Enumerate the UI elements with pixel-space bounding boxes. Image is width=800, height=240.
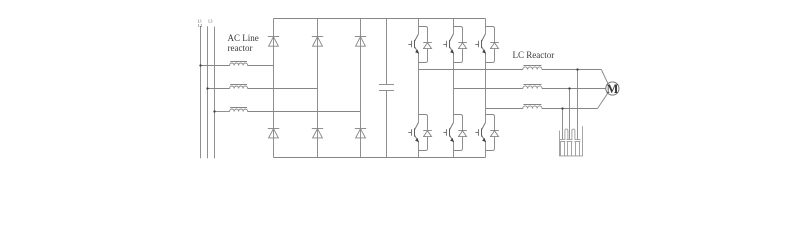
diode D6 (rectifier bottom, leg 3)	[355, 128, 366, 130]
inductor: AC line reactor coil 3	[230, 109, 248, 111]
node: junction dot filter tap 2	[568, 87, 570, 89]
diode D12 (freewheel, bottom leg 3)	[486, 115, 495, 131]
node: junction dot filter tap 3	[561, 107, 563, 109]
transistor Q2 (inverter top IGBT, leg 2)	[450, 34, 454, 42]
diode D7 (freewheel, top leg 1)	[419, 27, 428, 43]
label L1	[198, 20, 202, 24]
svg-text:LC Reactor: LC Reactor	[513, 50, 555, 60]
transistor Q6 (inverter bottom IGBT, leg 3)	[482, 122, 486, 129]
node: junction dot filter tap 1	[576, 68, 578, 70]
node: junction dot phase 1 tap	[199, 64, 201, 66]
diode D4 (rectifier bottom, leg 1)	[268, 128, 279, 130]
capacitor C3 (output filter)	[567, 139, 573, 141]
inductor: LC reactor coil 2	[523, 86, 542, 89]
svg-text:M: M	[606, 82, 618, 96]
wire: output phase V from inverter leg 2 to motor	[454, 88, 523, 90]
wire: phase 3 input from supply line to rectifier leg	[215, 111, 230, 113]
diode D2 (rectifier top, leg 2)	[312, 36, 323, 38]
diode D11 (freewheel, bottom leg 2)	[454, 115, 463, 131]
inductor: LC reactor coil 3	[523, 106, 542, 109]
node: junction dot phase 3 tap	[213, 110, 215, 112]
svg-text:L2: L2	[198, 24, 202, 28]
inductor: AC line reactor coil 2	[230, 86, 248, 89]
label L3	[208, 19, 212, 23]
label: AC Line reactor	[228, 33, 259, 43]
inductor: AC line reactor coil 1	[230, 63, 248, 66]
transistor Q5 (inverter bottom IGBT, leg 2)	[450, 122, 454, 129]
wire: inverter leg 3 main conductor	[485, 19, 487, 34]
svg-text:AC Line: AC Line	[228, 33, 259, 43]
svg-text:reactor: reactor	[228, 43, 253, 53]
inductor: LC reactor coil 1	[523, 67, 542, 70]
diode D10 (freewheel, bottom leg 1)	[419, 115, 428, 131]
wire: DC+ top bus	[274, 18, 486, 20]
wire: AC supply line 1	[200, 26, 202, 158]
wire: filter tap 3	[562, 109, 564, 140]
wire: phase 1 input from supply line to rectifier leg	[201, 65, 230, 67]
diode D5 (rectifier bottom, leg 2)	[312, 128, 323, 130]
motor M	[606, 82, 619, 95]
svg-text:L3: L3	[208, 19, 212, 23]
diode D1 (rectifier top, leg 1)	[268, 36, 279, 38]
capacitor C2 (output filter)	[560, 139, 566, 141]
node: junction dot phase 2 tap	[206, 87, 208, 89]
wire: filter tap 2	[569, 89, 571, 140]
label: LC Reactor	[513, 50, 555, 60]
diode D9 (freewheel, top leg 3)	[486, 27, 495, 43]
wire: AC supply line 3	[214, 27, 216, 159]
capacitor C1 (DC bus)	[386, 19, 388, 85]
wire: AC supply line 2	[207, 26, 209, 158]
capacitor C4 (output filter)	[575, 139, 581, 141]
wire: output phase W from inverter leg 3 to motor	[486, 108, 523, 110]
diode D8 (freewheel, top leg 2)	[454, 27, 463, 43]
wire: phase 2 input from supply line to rectifier leg	[208, 88, 230, 90]
transistor Q3 (inverter top IGBT, leg 3)	[482, 34, 486, 42]
wire: filter common bus bracket	[560, 126, 583, 156]
wire: output phase U from inverter leg 1 to motor	[419, 69, 523, 71]
wire: inverter leg 2 main conductor	[453, 19, 455, 34]
transistor Q4 (inverter bottom IGBT, leg 1)	[415, 122, 419, 129]
transistor Q1 (inverter top IGBT, leg 1)	[415, 34, 419, 42]
wire: rectifier leg 1	[273, 19, 275, 158]
diode D3 (rectifier top, leg 3)	[355, 36, 366, 38]
wire: rectifier leg 3	[360, 19, 362, 158]
wire: inverter leg 1 main conductor	[418, 19, 420, 34]
wire: rectifier leg 2	[317, 19, 319, 158]
label L2	[198, 24, 202, 28]
wire: filter tap 1	[577, 70, 579, 140]
wire: DC- bottom bus	[274, 157, 486, 159]
